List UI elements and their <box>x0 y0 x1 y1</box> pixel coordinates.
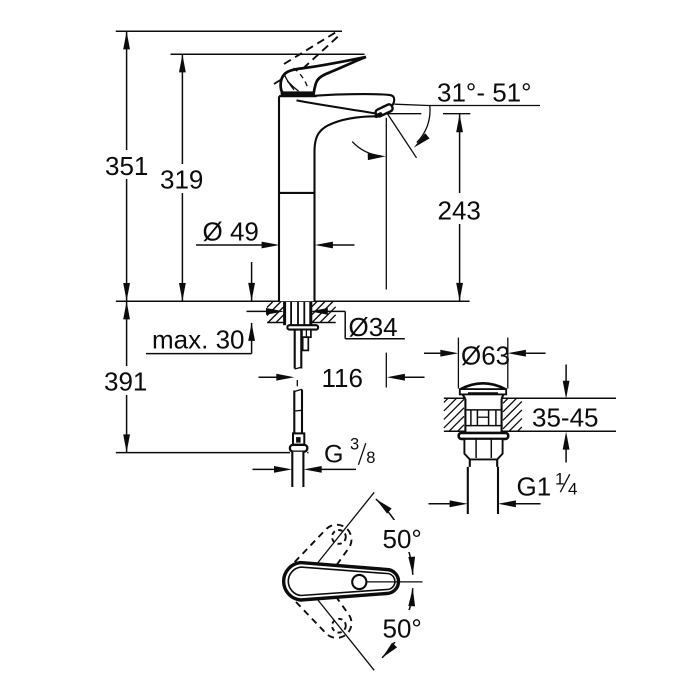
svg-text:31°- 51°: 31°- 51° <box>437 78 532 108</box>
svg-text:Ø34: Ø34 <box>349 312 398 342</box>
svg-text:3: 3 <box>350 436 359 454</box>
svg-text:Ø 49: Ø 49 <box>203 217 259 247</box>
svg-text:50°: 50° <box>383 524 422 554</box>
svg-text:50°: 50° <box>383 614 422 644</box>
svg-text:116: 116 <box>322 363 363 393</box>
svg-text:243: 243 <box>438 196 481 226</box>
svg-text:1: 1 <box>555 469 564 488</box>
svg-text:4: 4 <box>568 480 577 499</box>
svg-text:35-45: 35-45 <box>532 403 599 433</box>
svg-text:391: 391 <box>104 366 147 396</box>
svg-text:max. 30: max. 30 <box>152 324 245 354</box>
svg-text:8: 8 <box>366 449 375 467</box>
svg-text:G1: G1 <box>517 472 552 502</box>
svg-text:319: 319 <box>160 165 203 195</box>
svg-text:351: 351 <box>105 151 148 181</box>
svg-text:G: G <box>324 441 343 469</box>
svg-text:Ø63: Ø63 <box>461 340 510 370</box>
